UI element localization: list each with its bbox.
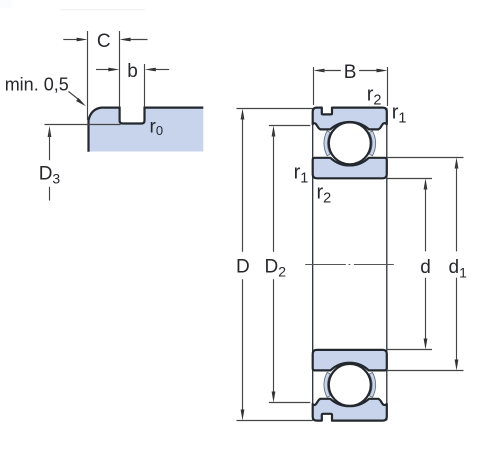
side face lines (312, 108, 314, 420)
D2 extension line top (269, 125, 310, 127)
d extension line bottom (387, 349, 432, 351)
d1 extension line top (387, 157, 464, 159)
D3 extension line (groove bottom diameter) (45, 124, 121, 126)
b dimension arrows (96, 69, 110, 71)
faint crop artifact top-left (0, 0, 13, 8)
top inner ring (313, 158, 387, 179)
top ball (329, 122, 371, 164)
bottom outer ring (with snap ring notch) (313, 399, 387, 421)
svg-text:B: B (344, 62, 357, 83)
top cage right crescent (369, 131, 375, 156)
D extension line top (237, 108, 313, 110)
leader line with arrow to chamfer (69, 92, 81, 101)
D2 dimension line with arrows (272, 126, 276, 137)
bottom cage left crescent (324, 372, 330, 397)
svg-text:D: D (236, 256, 250, 277)
D extension line bottom (237, 420, 313, 422)
svg-text:C: C (97, 31, 111, 52)
d extension line top (387, 178, 432, 180)
C extension line left (87, 31, 89, 120)
B dimension line and arrows (314, 69, 325, 73)
B extension line right (387, 67, 389, 106)
svg-text:min. 0,5: min. 0,5 (5, 75, 69, 95)
bottom half (mirror) (313, 350, 387, 421)
ring section (blue cross-section with snap ring groove) (89, 108, 204, 152)
top outer ring (with snap ring notch) (313, 108, 387, 130)
C dimension arrows (63, 39, 78, 41)
d dimension line with arrows (424, 179, 428, 190)
bottom inner ring (313, 350, 387, 371)
d1 dimension line with arrows (455, 158, 459, 169)
top cage left crescent (324, 131, 330, 156)
svg-text:d: d (420, 257, 431, 278)
C extension line right / groove left edge extension (119, 31, 121, 107)
faint crop artifact line (60, 9, 145, 10)
d1 extension line bottom (387, 370, 464, 372)
B extension line left (313, 67, 315, 105)
D3 dimension line with up arrow (48, 126, 52, 137)
b extension line right (144, 64, 146, 107)
ring section outline (side face, chamfer, groove, outer surface) (89, 108, 204, 152)
bottom ball (329, 364, 371, 406)
D dimension line with arrows (241, 109, 245, 120)
svg-text:b: b (127, 61, 138, 82)
bottom cage right crescent (369, 372, 375, 397)
centerline (305, 264, 346, 266)
D2 extension line bottom (269, 402, 310, 404)
